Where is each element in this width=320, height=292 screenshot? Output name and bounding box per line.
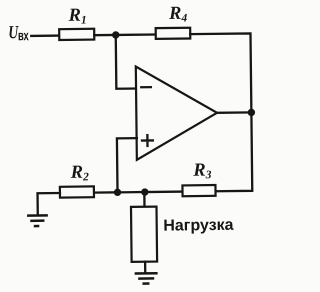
wire node B to R2	[95, 191, 118, 194]
resistor R3	[182, 185, 215, 196]
resistor R4	[156, 28, 191, 39]
svg-text:R2: R2	[70, 163, 90, 184]
op-amp inverting input marker −	[141, 86, 151, 88]
junction node B	[114, 189, 121, 196]
ground (left)	[27, 215, 48, 226]
wire node C down to load	[143, 192, 145, 207]
wire R4 to output node	[190, 33, 251, 113]
wire non-inverting input to node B	[117, 138, 138, 192]
load (Нагрузка) rectangle	[131, 207, 157, 262]
svg-text:R3: R3	[192, 161, 212, 182]
junction node C (load tap)	[141, 188, 148, 195]
svg-text:R1: R1	[67, 6, 86, 27]
svg-text:вх: вх	[18, 27, 29, 43]
junction output node	[248, 109, 255, 116]
junction node A	[112, 31, 119, 38]
wire node C to R3	[145, 190, 184, 193]
input voltage label Uвх	[8, 22, 29, 44]
wire R2 to ground	[38, 193, 61, 214]
svg-text:R4: R4	[168, 4, 188, 25]
wire Uвх to R1	[31, 34, 59, 37]
wire R1 to R4 through node A	[94, 33, 156, 36]
wire load to ground	[144, 262, 146, 272]
svg-text:Нагрузка: Нагрузка	[163, 217, 234, 235]
ground (load)	[135, 273, 158, 283]
resistor R2	[60, 186, 94, 197]
op-amp non-inverting input marker +	[142, 135, 153, 146]
op-amp U1 triangle	[136, 66, 218, 160]
wire op-amp output	[217, 111, 251, 114]
resistor R1	[59, 29, 94, 40]
wire node A to inverting input	[116, 35, 137, 89]
wire output node down to R3	[215, 112, 252, 191]
wire node B to node C	[118, 191, 145, 194]
